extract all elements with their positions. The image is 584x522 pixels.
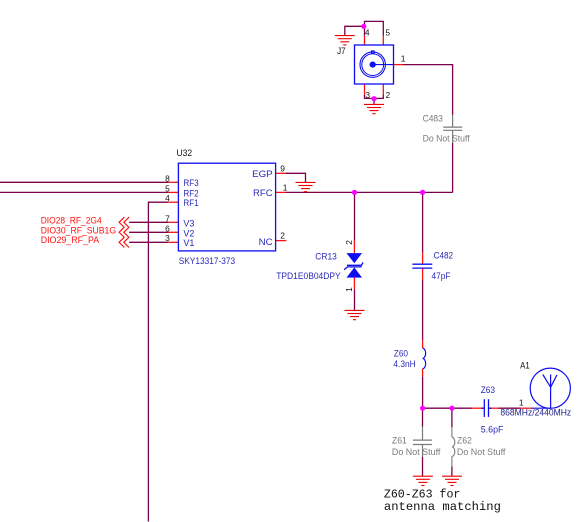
- svg-text:5: 5: [165, 183, 170, 193]
- pin C482 top: [422, 252, 424, 264]
- svg-text:C482: C482: [434, 250, 454, 260]
- inductor Z60: [423, 348, 426, 369]
- IC U32 body: [178, 163, 275, 251]
- svg-text:5.6pF: 5.6pF: [481, 425, 504, 435]
- svg-text:2: 2: [386, 90, 391, 100]
- junction at Z62 node: [449, 406, 454, 411]
- svg-text:DIO30_RF_SUB1G: DIO30_RF_SUB1G: [41, 225, 116, 235]
- junction at CR13 node: [352, 190, 357, 195]
- svg-text:V1: V1: [183, 238, 194, 248]
- pin U32.3: [169, 241, 179, 243]
- pin J7.1: [394, 64, 404, 66]
- wire Z62 to ground: [451, 466, 453, 476]
- ground G2 at J7 bottom: [364, 104, 384, 113]
- svg-text:1: 1: [401, 54, 406, 64]
- svg-text:TPD1E0B04DPY: TPD1E0B04DPY: [276, 271, 341, 281]
- pin U32.1 RFC: [276, 191, 286, 193]
- svg-text:V2: V2: [183, 228, 194, 238]
- svg-text:47pF: 47pF: [432, 271, 451, 281]
- svg-text:Do Not Stuff: Do Not Stuff: [423, 134, 470, 144]
- pin CR13.2: [353, 241, 355, 254]
- wire J7 bottom ground stub: [373, 98, 375, 104]
- svg-text:Z62: Z62: [457, 436, 472, 446]
- capacitor Z61 (Do Not Stuff): [413, 427, 432, 457]
- wire DIO30 to V2: [129, 231, 169, 233]
- svg-text:4: 4: [165, 193, 170, 203]
- junction at J7 bottom: [371, 96, 376, 101]
- svg-text:Do Not Stuff: Do Not Stuff: [392, 447, 441, 457]
- pin stubs red: [169, 36, 531, 409]
- TVS diode CR13: [344, 253, 363, 278]
- pin U32.6: [169, 231, 179, 233]
- wire C482 to Z60: [422, 280, 424, 340]
- wire Z62 top: [451, 408, 453, 427]
- wire DIO28 to V3: [129, 221, 169, 223]
- pin J7.4: [364, 36, 366, 45]
- junction at Z61 node: [420, 406, 425, 411]
- svg-text:3: 3: [165, 233, 170, 243]
- svg-text:RF2: RF2: [183, 188, 198, 198]
- ground G1 at J7 top: [335, 36, 355, 45]
- svg-text:2: 2: [280, 230, 285, 240]
- pin U32.9 EGP: [276, 172, 286, 174]
- offpage connector DIO30: [119, 227, 129, 237]
- svg-text:Z63: Z63: [481, 385, 495, 395]
- junction at J7 top: [361, 24, 366, 29]
- svg-text:5: 5: [385, 28, 390, 38]
- svg-text:DIO28_RF_2G4: DIO28_RF_2G4: [41, 215, 102, 225]
- wire CR13 top branch: [354, 192, 356, 240]
- offpage connector DIO28: [119, 217, 129, 227]
- wire RF1 vertical drop: [148, 202, 168, 521]
- svg-text:C483: C483: [423, 113, 443, 123]
- svg-text:4: 4: [365, 28, 370, 38]
- ground G4 at CR13: [345, 310, 365, 319]
- svg-text:1: 1: [519, 397, 524, 407]
- wire matching node horizontal: [423, 407, 472, 409]
- connector J7: [355, 45, 394, 84]
- svg-text:A1: A1: [520, 360, 530, 370]
- svg-text:RF1: RF1: [183, 198, 198, 208]
- pin J7.3: [364, 84, 366, 94]
- wire J7 bottom tie: [365, 94, 384, 98]
- wire C482 top branch: [422, 192, 424, 252]
- svg-text:8: 8: [165, 173, 170, 183]
- svg-text:1: 1: [344, 287, 354, 292]
- wire Z60 to matching node: [422, 377, 424, 409]
- capacitor Z63: [481, 399, 491, 417]
- svg-text:2: 2: [344, 240, 354, 245]
- wire RFC horizontal: [285, 191, 452, 193]
- svg-text:J7: J7: [337, 46, 346, 56]
- svg-text:EGP: EGP: [252, 169, 273, 179]
- wire Z61 to ground: [422, 457, 424, 476]
- wire J7 pin1 to C483: [403, 65, 453, 115]
- svg-text:868MHz/2440MHz: 868MHz/2440MHz: [500, 408, 571, 418]
- wire Z61 top: [422, 408, 424, 427]
- capacitor C483 (Do Not Stuff): [443, 115, 462, 143]
- svg-text:RF3: RF3: [183, 178, 198, 188]
- wire CR13 to ground: [354, 289, 356, 310]
- ground G5 at Z61: [413, 476, 433, 485]
- svg-text:7: 7: [165, 213, 170, 223]
- pin U32.5: [169, 191, 179, 193]
- svg-text:V3: V3: [183, 218, 194, 228]
- offpage connector DIO29: [119, 237, 129, 247]
- pin U32.7: [169, 221, 179, 223]
- svg-text:SKY13317-373: SKY13317-373: [179, 256, 236, 266]
- svg-text:9: 9: [280, 163, 285, 173]
- svg-text:4.3nH: 4.3nH: [393, 359, 415, 369]
- svg-text:Z60: Z60: [394, 349, 408, 359]
- pin A1.1: [521, 407, 531, 409]
- wire Z63 to antenna mid: [499, 407, 521, 409]
- svg-text:Z61: Z61: [392, 436, 407, 446]
- svg-text:Do Not Stuff: Do Not Stuff: [457, 447, 506, 457]
- svg-text:DIO29_RF_PA: DIO29_RF_PA: [41, 235, 99, 245]
- svg-text:CR13: CR13: [315, 251, 337, 261]
- wire J7 top loop: [365, 21, 384, 35]
- svg-text:6: 6: [165, 223, 170, 233]
- wire RF3 from left edge: [0, 181, 169, 183]
- svg-text:antenna matching: antenna matching: [384, 500, 501, 514]
- wire DIO29 to V1: [129, 241, 169, 243]
- pin Z60 bottom: [422, 369, 424, 377]
- svg-text:U32: U32: [177, 148, 193, 158]
- pin J7.5: [382, 36, 384, 45]
- svg-text:1: 1: [283, 182, 288, 192]
- pin Z63 right: [489, 407, 499, 409]
- pin C482 bottom: [422, 268, 424, 279]
- inductor Z62 (Do Not Stuff): [452, 427, 455, 466]
- junction at C482 node: [420, 190, 425, 195]
- ground G3 at EGP: [296, 182, 316, 191]
- pin J7.2: [382, 84, 384, 94]
- wire RF2 from left edge: [0, 191, 169, 193]
- pin CR13.1: [353, 277, 355, 289]
- svg-text:3: 3: [365, 90, 370, 100]
- pin U32.2 NC: [276, 240, 287, 242]
- wire C483 to RFC net: [452, 143, 454, 192]
- pin U32.8: [169, 181, 179, 183]
- ground G6 at Z62: [442, 476, 462, 485]
- svg-text:NC: NC: [259, 237, 274, 247]
- pin Z63 left: [472, 407, 484, 409]
- capacitor C482: [412, 264, 432, 268]
- wire EGP to ground: [285, 173, 305, 182]
- pin U32.4: [169, 201, 179, 203]
- wire J7 top ground branch: [345, 26, 365, 35]
- antenna A1: [530, 368, 570, 408]
- svg-text:RFC: RFC: [253, 188, 273, 198]
- pin Z60 top: [422, 340, 424, 349]
